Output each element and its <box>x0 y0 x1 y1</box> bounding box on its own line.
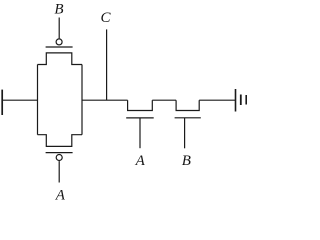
wire bubble to label A <box>58 161 60 182</box>
transistor pair M1/M2 drain rail (right vertical of box) <box>81 65 83 135</box>
transistor M1 gate bar <box>46 46 73 48</box>
battery BR plate cut at right edge <box>245 95 247 105</box>
transistor M1 channel (top of box with notch) <box>38 53 83 65</box>
battery BR long plate <box>235 89 237 112</box>
wire box to transistor M3 <box>82 99 128 101</box>
wire M3 to M4 <box>152 99 176 101</box>
svg-text:A: A <box>135 153 146 169</box>
wire transistor M4 gate to label B <box>184 118 186 149</box>
wire left terminal to transmission box <box>3 99 38 101</box>
wire transistor M3 gate to label A <box>139 118 141 148</box>
svg-text:B: B <box>54 2 63 18</box>
svg-text:B: B <box>182 153 191 169</box>
transistor M3 gate bar <box>126 117 154 119</box>
transistor M2 gate bar <box>46 152 73 154</box>
battery BL left plate (cut at left edge) <box>1 90 3 115</box>
transistor M2 gate bubble <box>56 155 62 161</box>
transistor pair M1/M2 source rail (left vertical of box) <box>37 65 39 135</box>
wire M4 to battery <box>199 99 235 101</box>
transistor M4 gate bar <box>175 117 201 119</box>
battery BR short plate <box>240 95 242 106</box>
transistor M3 channel <box>128 100 153 110</box>
transistor M1 gate bubble <box>56 39 62 45</box>
svg-text:A: A <box>55 188 66 204</box>
wire node C vertical <box>106 29 108 100</box>
transistor M4 channel <box>176 100 199 110</box>
wire gate B to bubble <box>58 18 60 39</box>
svg-text:C: C <box>100 10 111 26</box>
transistor M2 channel (bottom of box with notch) <box>38 135 83 147</box>
